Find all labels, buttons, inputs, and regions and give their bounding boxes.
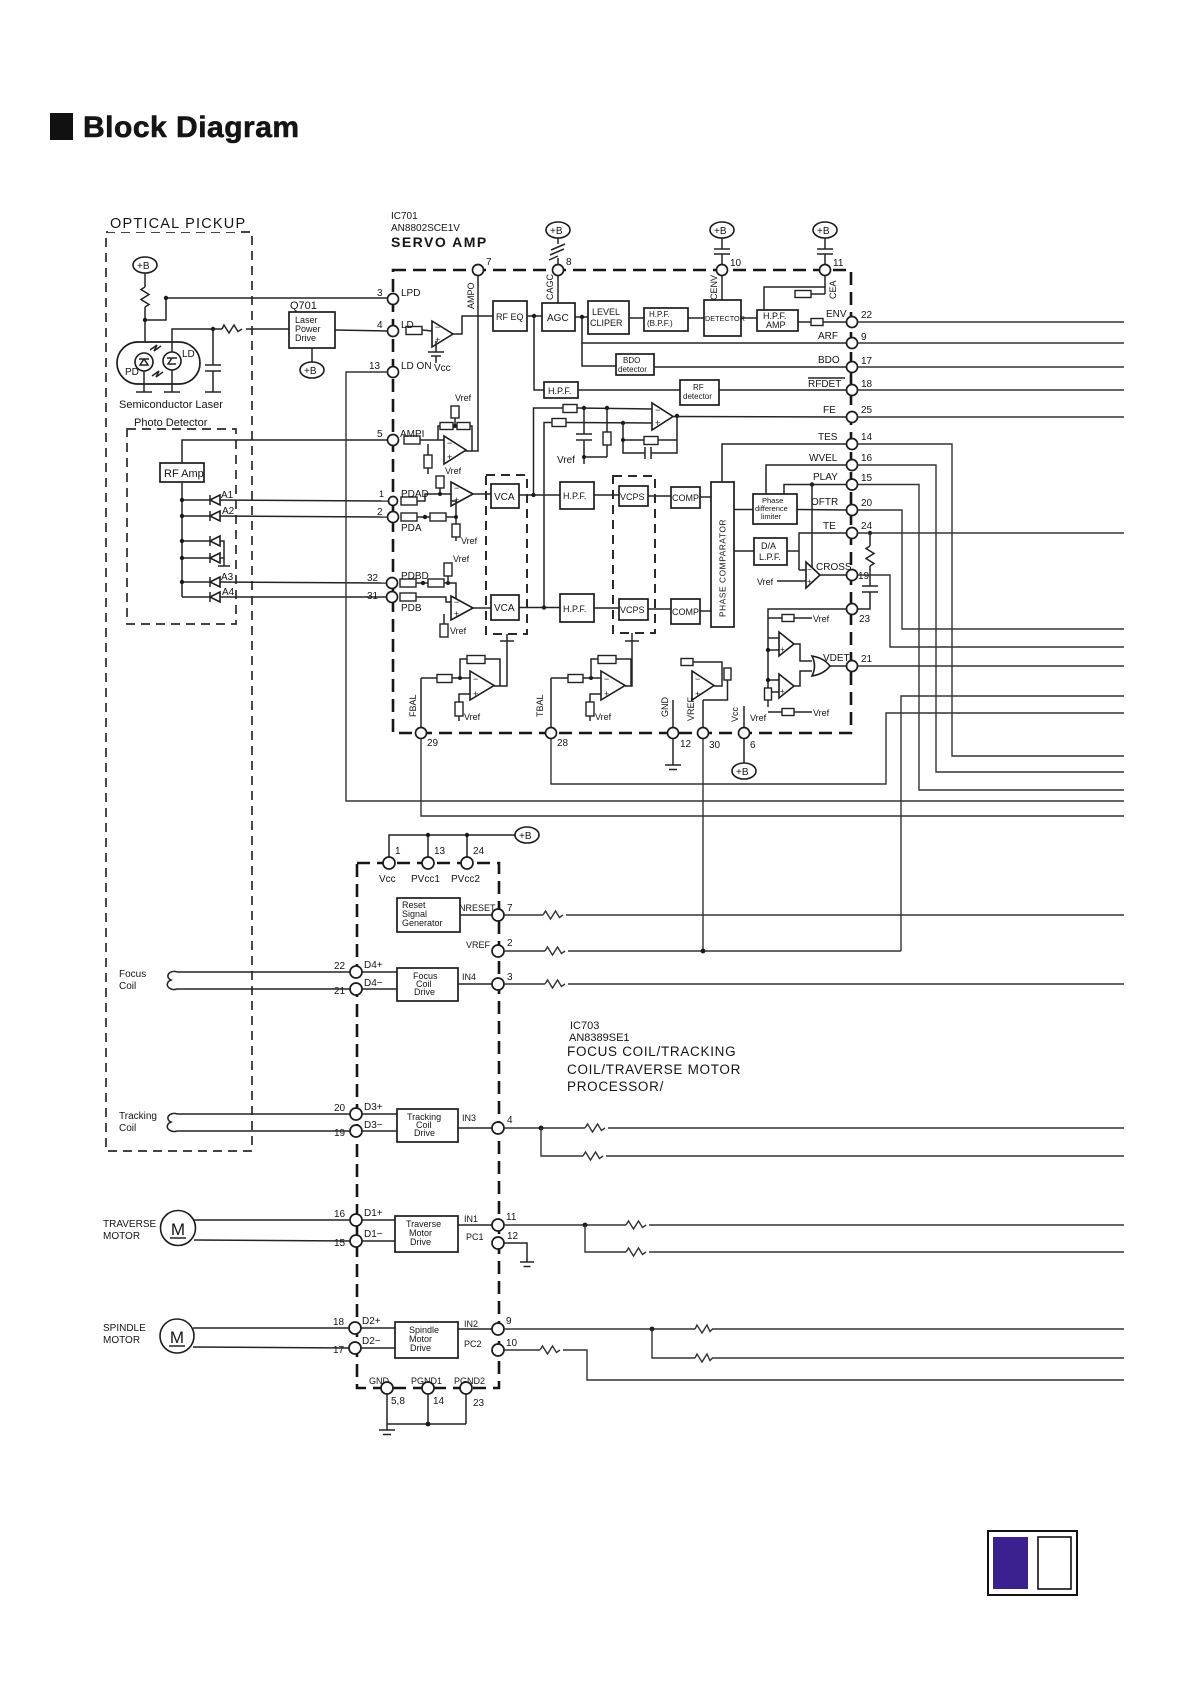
- svg-text:ENV: ENV: [826, 309, 847, 320]
- svg-text:BDO: BDO: [818, 355, 840, 366]
- svg-text:PROCESSOR/: PROCESSOR/: [567, 1079, 664, 1094]
- wire pin12 up: [672, 700, 674, 727]
- battery Vcc: [428, 341, 444, 363]
- svg-text:−: −: [695, 674, 700, 684]
- svg-text:TE: TE: [823, 521, 836, 532]
- svg-text:2: 2: [507, 938, 513, 949]
- Q701 box: [289, 312, 335, 348]
- svg-text:−: −: [604, 674, 609, 684]
- pin 18 D2+: [333, 1316, 381, 1334]
- svg-text:SERVO AMP: SERVO AMP: [391, 234, 488, 250]
- svg-text:D4+: D4+: [364, 960, 383, 971]
- pin 14 TES: [847, 432, 873, 450]
- pin 17 BDO: [847, 356, 873, 373]
- op-amp U-VREF: [692, 671, 714, 700]
- svg-text:H.P.F.: H.P.F.: [563, 604, 586, 614]
- wire pin28 up: [550, 678, 552, 727]
- wire PD to ground: [143, 371, 145, 392]
- svg-text:RF: RF: [693, 383, 704, 392]
- wire OFTR: [797, 509, 846, 512]
- wire TES out: [858, 444, 1125, 756]
- wire D4-: [362, 988, 397, 990]
- pin 13 PVcc1: [422, 857, 434, 869]
- svg-text:21: 21: [334, 986, 346, 997]
- resistor TBAL in: [551, 675, 601, 683]
- wire to pin 22: [823, 321, 846, 323]
- wire WVEL: [766, 465, 846, 494]
- VCPS column ground stub: [625, 633, 639, 641]
- wire RFDET in: [534, 316, 544, 390]
- wire NRESET out: [504, 911, 1124, 919]
- svg-text:MOTOR: MOTOR: [103, 1231, 140, 1242]
- VCA dashed column: [486, 475, 527, 634]
- pin 7 NRESET: [492, 903, 513, 921]
- svg-text:−: −: [655, 405, 660, 415]
- label Tracking Coil: [119, 1111, 157, 1134]
- pin 29 FBAL: [416, 728, 439, 750]
- wire CROSS out: [858, 575, 1125, 647]
- pin 30 VREF: [698, 728, 721, 752]
- pin 19 D3-: [334, 1120, 383, 1139]
- RF Amp box: [160, 463, 204, 482]
- wire HPF1 to VCPS1: [594, 494, 619, 496]
- ground LD: [164, 391, 180, 393]
- junction VREF net: [701, 949, 706, 954]
- resistor Vref below PDA: [452, 515, 460, 541]
- IC701 dashed box: [393, 270, 851, 733]
- COMP2 box: [671, 599, 700, 624]
- resistor Vref below PDB: [440, 614, 448, 637]
- feedback AMPI: [438, 423, 472, 452]
- legend purple swatch: [993, 1537, 1028, 1589]
- svg-text:4: 4: [507, 1115, 513, 1126]
- ground B diodes: [218, 558, 230, 566]
- wire TBAL out: [551, 713, 1124, 784]
- RF detector box: [680, 380, 719, 405]
- wire BDO out: [858, 366, 1125, 368]
- svg-text:Vref: Vref: [445, 466, 462, 476]
- wire ENV out: [858, 321, 1125, 323]
- svg-text:8: 8: [566, 257, 572, 268]
- wire IN4 out: [504, 980, 1124, 988]
- svg-text:PDAD: PDAD: [401, 489, 429, 500]
- pin 7 AMPO: [473, 265, 484, 276]
- pin 16 D1+: [334, 1208, 383, 1226]
- diode B2: [182, 553, 220, 563]
- svg-text:+B: +B: [304, 366, 317, 377]
- svg-text:9: 9: [506, 1316, 512, 1327]
- svg-text:19: 19: [858, 571, 870, 582]
- svg-text:IN4: IN4: [462, 972, 476, 982]
- junction IN1: [583, 1223, 588, 1228]
- wire D4+: [362, 971, 397, 973]
- wire Vref to cross: [777, 580, 806, 582]
- junction cap top: [211, 327, 215, 331]
- junction ground bus: [426, 1422, 431, 1427]
- resistor vdet lower vref: [768, 709, 812, 716]
- svg-text:D1+: D1+: [364, 1208, 383, 1219]
- wire pin6 up: [743, 706, 745, 727]
- IC703 dashed box: [357, 863, 499, 1388]
- svg-text:Vcc: Vcc: [379, 874, 396, 885]
- wire BDO to pin 17: [654, 366, 846, 368]
- wire LD ON net: [346, 372, 1124, 801]
- pin 21 D4-: [334, 978, 383, 997]
- +B supply (IC703): [515, 827, 539, 843]
- capacitor pin 8 (hatch): [549, 238, 565, 265]
- pin 4 LD: [377, 320, 414, 337]
- semiconductor laser package: [117, 342, 200, 384]
- wire PDB opamp to VCA2: [473, 607, 491, 609]
- FE sense wire from VCA1: [534, 408, 564, 495]
- resistor VREF fb: [681, 659, 722, 687]
- svg-text:13: 13: [434, 846, 446, 857]
- wire PDAD opamp to VCA: [473, 493, 491, 495]
- svg-text:DETECTOR: DETECTOR: [705, 314, 745, 323]
- wire pin10 to DETECTOR: [721, 276, 723, 300]
- pin 25 FE: [847, 405, 873, 423]
- wire PDA to opamp plus: [446, 501, 456, 517]
- pin 4 IN3: [492, 1115, 513, 1134]
- svg-text:D/A: D/A: [761, 541, 776, 551]
- wire pin30 up: [702, 700, 704, 727]
- ground pin 12: [665, 738, 681, 770]
- wire A2 to pin 2: [220, 516, 387, 517]
- junction RFEQ out: [532, 314, 536, 318]
- COMP1 box: [671, 487, 700, 508]
- pin 1 resistor: [401, 497, 417, 505]
- svg-text:AMPI: AMPI: [400, 429, 424, 440]
- svg-text:Vref: Vref: [450, 626, 467, 636]
- junction B1: [180, 539, 184, 543]
- svg-text:11: 11: [833, 258, 844, 269]
- Vref stub FBAL: [455, 694, 470, 721]
- svg-text:CENV: CENV: [709, 275, 719, 300]
- wire IN2 out a: [504, 1325, 1124, 1333]
- pin 15 PLAY: [847, 473, 873, 490]
- capacitor pin 11: [817, 238, 833, 265]
- pin 20 OFTR: [847, 498, 873, 516]
- HPF2 box: [560, 594, 594, 622]
- resistor AMPI Vref stub: [424, 444, 432, 474]
- svg-text:17: 17: [861, 356, 873, 367]
- wire FE to pin 25: [673, 416, 846, 419]
- pin 11 IN1: [492, 1212, 517, 1231]
- wire photodiode bus: [181, 482, 183, 597]
- pin 16 WVEL: [847, 453, 873, 471]
- wire FBAL out to VCA: [494, 641, 507, 686]
- pin 4 input resistor: [406, 327, 422, 335]
- LEVEL CLIPER box: [588, 301, 629, 334]
- svg-text:AMP: AMP: [766, 320, 786, 330]
- wire FBAL out long: [421, 739, 1124, 817]
- svg-text:COMP: COMP: [672, 607, 699, 617]
- Focus Coil Drive box: [397, 968, 458, 1001]
- svg-text:30: 30: [709, 740, 721, 751]
- svg-text:WVEL: WVEL: [809, 453, 838, 464]
- diode A2: [182, 511, 220, 521]
- ground IC703: [379, 1430, 395, 1435]
- wire Q701 to pin 4: [335, 330, 387, 331]
- resistor to laser power drive: [222, 325, 242, 333]
- svg-text:32: 32: [367, 573, 379, 584]
- wire D1+: [362, 1219, 395, 1221]
- FE feedback cap row: [623, 416, 677, 459]
- junction vdet in2: [766, 678, 770, 682]
- svg-text:2: 2: [377, 507, 383, 518]
- VCA box 2: [491, 595, 519, 620]
- svg-text:20: 20: [334, 1103, 346, 1114]
- svg-text:VCA: VCA: [494, 603, 515, 614]
- capacitor pin 10: [714, 238, 730, 265]
- wire FE top row: [577, 408, 652, 409]
- svg-text:RF EQ: RF EQ: [496, 312, 524, 322]
- wire VDET to pin 21: [830, 665, 846, 667]
- svg-text:detector: detector: [683, 392, 712, 401]
- wire FE second row: [566, 422, 652, 425]
- resistor FE top: [563, 405, 577, 413]
- junction bus 13: [426, 833, 430, 837]
- svg-text:AMPO: AMPO: [466, 282, 476, 309]
- wire resistor to Q701: [246, 328, 289, 330]
- VCPS1 box: [619, 486, 648, 506]
- svg-text:CLIPER: CLIPER: [590, 318, 623, 328]
- svg-text:TES: TES: [818, 432, 838, 443]
- pin 13 LD ON: [369, 361, 432, 378]
- svg-text:M: M: [171, 1220, 185, 1239]
- junction bus 24: [465, 833, 469, 837]
- svg-text:TRAVERSE: TRAVERSE: [103, 1219, 156, 1230]
- wire PDBD to opamp plus: [444, 583, 456, 614]
- pin 32 PDBD: [367, 571, 429, 589]
- svg-text:5,8: 5,8: [391, 1396, 405, 1407]
- svg-text:VCPS: VCPS: [620, 605, 645, 615]
- wire PLAY: [784, 485, 846, 495]
- svg-text:+: +: [447, 452, 452, 462]
- optical pickup dashed box: [106, 232, 252, 1151]
- wire ground bus IC703: [387, 1394, 466, 1430]
- title block square: [50, 113, 73, 140]
- svg-text:31: 31: [367, 591, 379, 602]
- svg-text:Vref: Vref: [461, 536, 478, 546]
- svg-text:IN1: IN1: [464, 1214, 478, 1224]
- svg-text:COIL/TRAVERSE MOTOR: COIL/TRAVERSE MOTOR: [567, 1062, 741, 1077]
- junction A2: [180, 514, 184, 518]
- pin 15 D1-: [334, 1229, 383, 1249]
- svg-text:−: −: [807, 565, 812, 574]
- svg-text:VDET: VDET: [823, 653, 850, 664]
- wire VCA2 to HPF2: [519, 607, 560, 609]
- wire PLAY out: [858, 485, 1125, 791]
- HPF BPF box: [644, 308, 688, 331]
- combiner gate VDET: [794, 644, 830, 686]
- svg-text:+: +: [780, 687, 785, 696]
- svg-text:NRESET: NRESET: [459, 903, 496, 913]
- svg-text:H.P.F.: H.P.F.: [548, 386, 571, 396]
- resistor Vref top (AMPI): [451, 406, 459, 428]
- BDO detector box: [616, 354, 654, 375]
- wire drive to pin 4: [458, 1127, 492, 1129]
- svg-text:LD: LD: [401, 320, 414, 331]
- svg-text:Drive: Drive: [410, 1237, 431, 1247]
- wire RF detector to pin 18: [719, 389, 846, 391]
- pin 19 CROSS: [847, 570, 870, 583]
- svg-text:CROSS: CROSS: [816, 562, 852, 573]
- svg-text:Vref: Vref: [464, 712, 481, 722]
- svg-text:D4−: D4−: [364, 978, 383, 989]
- svg-text:D2+: D2+: [362, 1316, 381, 1327]
- svg-text:23: 23: [473, 1398, 485, 1409]
- junction B2: [180, 556, 184, 560]
- svg-text:Drive: Drive: [295, 333, 316, 343]
- +B supply (pin 11): [813, 222, 837, 238]
- svg-text:IN2: IN2: [464, 1319, 478, 1329]
- wire drive to pin 11: [458, 1224, 492, 1226]
- diode B1: [182, 536, 220, 546]
- wire PC1 to ground: [504, 1243, 527, 1262]
- resistor FE vertical: [603, 408, 611, 457]
- wire RFEQ-AGC: [527, 315, 542, 317]
- pin 3 IN4: [492, 972, 513, 990]
- resistor FBAL in: [421, 675, 470, 683]
- wire +B bus IC703: [389, 835, 515, 857]
- wire AGC-CLIPER: [575, 316, 588, 318]
- svg-text:Tracking: Tracking: [119, 1111, 157, 1122]
- op-amp U-PDB: [451, 596, 473, 620]
- svg-text:IC701: IC701: [391, 211, 418, 222]
- VCA box 1: [491, 484, 519, 508]
- +B supply (pin 6): [732, 738, 756, 779]
- wire HPFAMP to resistor: [798, 321, 811, 323]
- pin 22 D4+: [334, 960, 383, 978]
- svg-text:Vref: Vref: [595, 712, 612, 722]
- svg-text:BDO: BDO: [623, 356, 640, 365]
- diode A1: [182, 495, 220, 505]
- Traverse Motor Drive box: [395, 1216, 458, 1252]
- resistor FE second: [552, 419, 566, 427]
- wire FE Vref link: [584, 456, 607, 458]
- +B supply (laser): [133, 257, 157, 273]
- VCPS2 box: [619, 599, 648, 620]
- svg-text:−: −: [454, 597, 459, 607]
- svg-text:LD ON: LD ON: [401, 361, 432, 372]
- ground PD: [136, 391, 152, 393]
- FE sense wire from VCA2: [544, 423, 552, 608]
- svg-text:−: −: [447, 438, 452, 448]
- wire LPD to pin 3: [145, 298, 387, 320]
- svg-text:PC2: PC2: [464, 1339, 482, 1349]
- svg-text:D3+: D3+: [364, 1102, 383, 1113]
- svg-text:22: 22: [861, 310, 873, 321]
- svg-text:SPINDLE: SPINDLE: [103, 1323, 146, 1334]
- svg-text:9: 9: [861, 332, 867, 343]
- svg-text:D2−: D2−: [362, 1336, 381, 1347]
- op-amp U-TBAL: [601, 671, 625, 700]
- HPF box (RFDET): [544, 382, 578, 398]
- junction FE cap: [582, 406, 586, 410]
- svg-text:22: 22: [334, 961, 346, 972]
- junction FE fb: [621, 438, 625, 442]
- svg-text:PVcc1: PVcc1: [411, 874, 440, 885]
- svg-text:Drive: Drive: [414, 1128, 435, 1138]
- junction IN2: [650, 1327, 655, 1332]
- AGC box: [542, 303, 575, 331]
- svg-text:15: 15: [334, 1238, 346, 1249]
- op-amp U-VDET2: [768, 674, 794, 698]
- pin 10 PC2: [492, 1338, 518, 1356]
- pin 24 TE: [847, 521, 873, 539]
- svg-text:FOCUS COIL/TRACKING: FOCUS COIL/TRACKING: [567, 1044, 736, 1059]
- op-amp U-AMPI: [444, 436, 466, 464]
- svg-text:−: −: [454, 483, 459, 493]
- wire TES: [722, 444, 846, 482]
- svg-text:Semiconductor Laser: Semiconductor Laser: [119, 399, 223, 411]
- wire VCPS2 to COMP2: [648, 608, 671, 610]
- svg-text:11: 11: [506, 1212, 517, 1223]
- resistor ENV: [811, 319, 823, 326]
- spindle motor M: [160, 1319, 194, 1353]
- resistor Vref above PDAD: [436, 476, 444, 496]
- svg-text:FBAL: FBAL: [408, 694, 418, 717]
- svg-text:−: −: [473, 674, 478, 684]
- pin 20 D3+: [334, 1102, 383, 1120]
- pin 2 PDA: [377, 507, 422, 534]
- feedback FBAL: [458, 656, 500, 687]
- svg-text:Drive: Drive: [410, 1343, 431, 1353]
- pin 5 resistor: [404, 436, 420, 444]
- wire AMPO: [464, 276, 478, 451]
- svg-text:M: M: [170, 1328, 184, 1347]
- svg-text:17: 17: [333, 1345, 345, 1356]
- svg-text:24: 24: [473, 846, 485, 857]
- wire phase to limiter: [734, 509, 753, 511]
- wire VDET out: [858, 665, 1125, 667]
- DETECTOR box: [704, 300, 745, 336]
- wire IN2 out b: [652, 1329, 1124, 1362]
- wire pin8 to AGC: [557, 276, 559, 303]
- pin 8 CAGC: [553, 265, 564, 276]
- junction VCA1 out: [531, 493, 535, 497]
- resistor vdet vertical: [765, 688, 772, 707]
- svg-text:4: 4: [377, 320, 383, 331]
- svg-text:+: +: [655, 418, 660, 428]
- wire spindle motor -: [193, 1347, 349, 1348]
- wire D2+: [361, 1327, 395, 1329]
- wire phase to D/A: [734, 550, 754, 552]
- wire TE out: [858, 532, 1125, 534]
- tracking coil: [167, 1113, 350, 1131]
- svg-text:21: 21: [861, 654, 873, 665]
- svg-text:Photo Detector: Photo Detector: [134, 417, 208, 429]
- svg-text:+: +: [780, 645, 785, 654]
- svg-text:(B.P.F.): (B.P.F.): [647, 319, 673, 328]
- wire FE out: [858, 416, 1125, 418]
- HPF1 box: [560, 482, 594, 509]
- resistor TEBPF top Vref: [768, 615, 812, 622]
- svg-text:25: 25: [861, 405, 873, 416]
- svg-text:12: 12: [507, 1231, 519, 1242]
- wire reset to pin 7: [460, 914, 492, 916]
- +B supply (pin 8): [546, 222, 570, 238]
- svg-text:PDBD: PDBD: [401, 571, 429, 582]
- svg-text:18: 18: [861, 379, 873, 390]
- svg-text:10: 10: [730, 258, 742, 269]
- svg-text:D1−: D1−: [364, 1229, 383, 1240]
- wire VCPS1 to COMP1: [648, 495, 671, 497]
- wire ARF: [582, 317, 846, 343]
- wire Q701 to +B: [311, 348, 313, 362]
- wire BDO in: [582, 343, 616, 366]
